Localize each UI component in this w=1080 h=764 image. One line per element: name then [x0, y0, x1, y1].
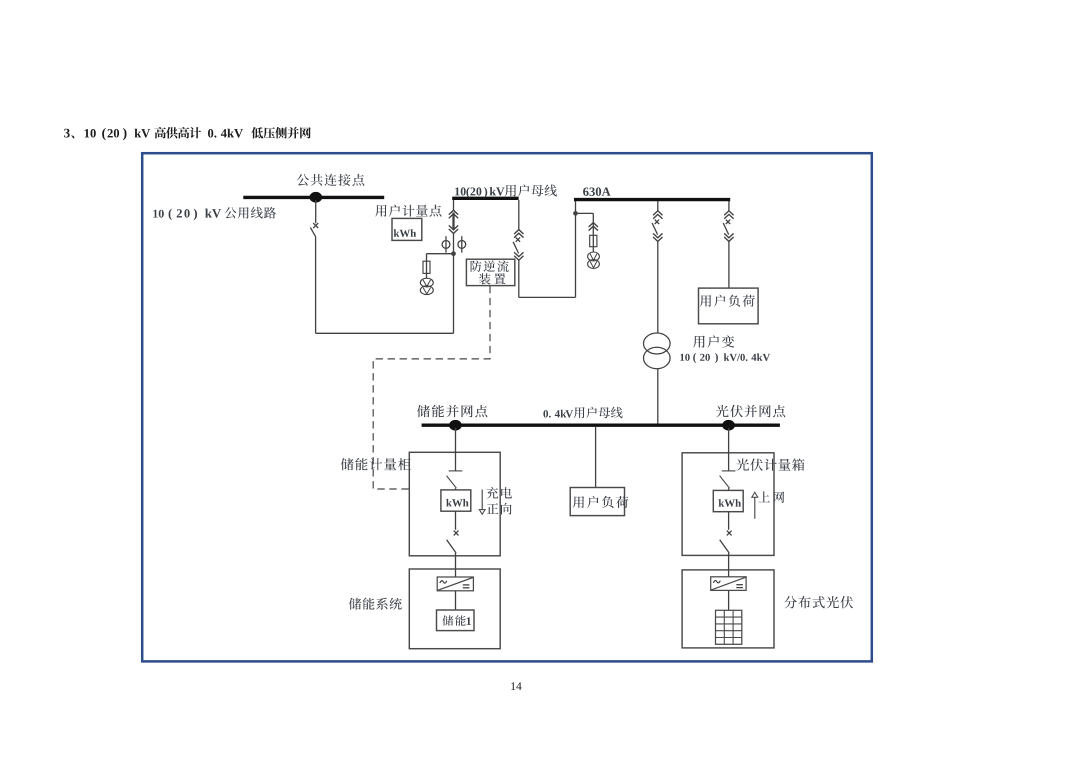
meter box kWh (user metering point) [392, 218, 422, 240]
wire: junction to PT tap [427, 253, 454, 255]
switch QS1 blade [310, 227, 315, 236]
export arrow (上网) [752, 492, 758, 497]
label: 630A [583, 187, 611, 196]
wire: PT tap down [426, 254, 428, 279]
wire: CB2 down [518, 260, 520, 297]
wire: bottom horizontal to metering riser [316, 332, 454, 334]
wire into PV meter [728, 488, 730, 490]
wire: inverter to battery [455, 591, 457, 610]
load breaker CB4 upper chevrons [724, 211, 733, 219]
wire: junction to PT2 tap [576, 212, 594, 214]
drawout breaker CB2 upper chevrons [514, 230, 523, 238]
storage switch S1 (bar and blade) [449, 470, 463, 472]
label: 正向 [487, 503, 512, 515]
load box: 用户负荷 (0.4kV) [570, 488, 624, 516]
feeder breaker CB3 upper chevrons [653, 211, 662, 219]
node: PT tap junction dot on riser [574, 212, 577, 215]
bus: 10(20)kV user bus left section (用户母线) [452, 197, 518, 200]
label: 储能并网点 [417, 405, 487, 418]
wire: PV POC down [728, 428, 730, 471]
node: CT junction dot [452, 252, 455, 255]
wire: meter down to switch S2 [455, 511, 457, 530]
label: 用户计量点 [375, 205, 441, 217]
wire: user bus right end drop [518, 200, 520, 230]
storage system box 储能系统 [409, 569, 500, 649]
wire: breaker to CT junction [453, 233, 455, 253]
label: 10（20）kV/0.4kV [680, 353, 770, 363]
breaker CB4 x marker [726, 220, 730, 224]
wire: 630A bus drop to load feeder [728, 201, 730, 211]
feeder breaker CB3 lower chevrons [653, 233, 662, 241]
drawout breaker CB1 lower chevrons [449, 225, 458, 233]
label: 光伏计量箱 [736, 459, 804, 471]
load breaker CB4 lower chevrons [724, 233, 733, 241]
page title: 3、10（20）kV 高供高计 0.4kV 低压侧并网 [64, 127, 311, 140]
bus: 10(20)kV public line (公用线路) [243, 196, 384, 199]
wire: switch down to corner [315, 237, 317, 334]
distributed PV box 分布式光伏 [682, 570, 774, 648]
wire: PV meter down to switch S4 [728, 512, 730, 530]
PV switch S4 x marker [727, 531, 732, 536]
label: 储能计量柜 [341, 458, 411, 471]
label: 储能系统 [349, 598, 402, 610]
wire: S2 down to inverter [455, 553, 457, 577]
storage metering cabinet box 储能计量柜 [409, 452, 500, 556]
wire: riser up to CT junction [453, 254, 455, 334]
label: 充电 [487, 487, 512, 499]
charging direction arrow (充电 正向) [481, 490, 483, 510]
wire: storage POC down [455, 428, 457, 471]
wire: CB2 horizontal to 630A bus riser [519, 296, 576, 298]
label: 0.4kV用户母线 [543, 407, 622, 418]
PV metering cabinet box 光伏计量箱 [682, 453, 774, 556]
bus: 0.4kV user bus [422, 424, 780, 427]
transformer T1 (用户变) primary winding [644, 333, 671, 354]
drawout breaker CB1 upper chevrons [449, 210, 458, 218]
label: 公共连接点 [297, 174, 365, 186]
wire: user bus left drop [453, 200, 455, 210]
switch QS1 open-contact x marker [313, 223, 318, 228]
wire: inverter to PV array [728, 590, 730, 610]
wire: CB3 down to transformer [657, 241, 659, 333]
fuse FU1 [423, 261, 430, 273]
wire: 630A bus drop to transformer feeder [657, 201, 659, 211]
label: 10(20)kV用户母线 [455, 184, 557, 198]
breaker CB2 x marker [516, 237, 520, 241]
CT sensor left (metering) [445, 236, 447, 252]
node: PV POC dot (光伏并网点) [722, 420, 735, 431]
wire: PT2 tap down [592, 213, 594, 251]
page number 14 [511, 682, 521, 690]
wire into storage meter [455, 488, 457, 490]
label: 上网 [758, 491, 784, 503]
PV array panel symbol [716, 610, 742, 644]
fuse FU2 [590, 235, 597, 246]
label: 分布式光伏 [784, 596, 853, 609]
wire: transformer to 0.4kV bus [657, 369, 659, 424]
storage switch S2 x marker [454, 531, 459, 536]
PV inverter (DC/AC converter) [711, 577, 746, 591]
voltage transformer PT1 [420, 278, 433, 287]
storage inverter (AC/DC converter) [437, 577, 473, 591]
breaker CB3 blade [652, 223, 658, 235]
PV meter kWh box [713, 490, 743, 511]
label: 光伏并网点 [716, 405, 785, 417]
blue drawing frame [142, 153, 872, 661]
node: storage POC dot (储能并网点) [449, 420, 462, 431]
wire: S4 down to PV inverter [728, 553, 730, 577]
PV switch S3 (bar and blade) [722, 470, 736, 472]
breaker CB2 blade [513, 242, 519, 254]
anti-backflow device box 防逆流装置 [466, 259, 514, 285]
breaker CB4 blade [723, 223, 729, 235]
node: PCC dot (公共连接点) [309, 192, 322, 203]
PT2 tap chevrons [589, 223, 598, 231]
transformer T1 secondary winding [644, 347, 671, 368]
storage switch S2 blade [447, 540, 457, 553]
wire: 0.4kV bus to user load [595, 427, 597, 488]
wire: CB4 down to load box [728, 241, 730, 288]
drawout breaker CB1 closed link [452, 213, 454, 230]
drawout breaker CB2 lower chevrons [514, 252, 523, 260]
dashed control line: device to storage cabinet [373, 286, 490, 489]
label: 10（20）kV公用线路 [153, 207, 276, 220]
wire: PCC dot down to switch [315, 200, 317, 223]
wire: riser up to 630A bus [575, 200, 577, 297]
CT sensor right (metering) [461, 236, 463, 252]
battery box 储能1 [437, 610, 475, 631]
load box: 用户负荷 (10kV) [699, 288, 759, 324]
label: 用户变 [693, 335, 734, 348]
voltage transformer PT2 [588, 252, 600, 261]
storage meter kWh box [441, 490, 471, 511]
PV switch S4 blade [720, 540, 730, 553]
bus: 630A main bus [574, 198, 730, 201]
breaker CB3 x marker [655, 220, 659, 224]
